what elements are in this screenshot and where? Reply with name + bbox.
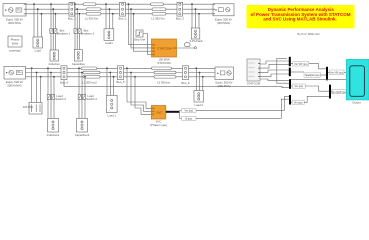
wire Vm to mux: [196, 97, 289, 111]
label Vm (pu): [182, 108, 197, 112]
line block L1 350 km: [83, 3, 101, 20]
mux bar C2: [289, 95, 291, 105]
Bus_3: [176, 2, 184, 20]
svg-text:Switch 3: Switch 3: [55, 97, 66, 101]
mux bar B: [289, 68, 291, 77]
wire B to mux: [196, 99, 289, 118]
Bus_2: [119, 2, 127, 20]
svg-text:STATCOM: STATCOM: [157, 47, 172, 51]
breaker group 2 (Bus Breakers 2): [74, 3, 95, 49]
svg-text:By Prof. MMH Asfi: By Prof. MMH Asfi: [298, 32, 320, 36]
generator source block right Equiv. 500 kV (300 MVA): [213, 4, 234, 25]
svg-text:SVC: SVC: [156, 110, 163, 114]
svg-text:Capacitive1: Capacitive1: [75, 133, 90, 137]
line block L2 350 km: [151, 3, 167, 20]
wire row1 phase C: [26, 13, 213, 15]
svg-text:Bus_3: Bus_3: [176, 16, 184, 20]
svg-text:Breakers 2: Breakers 2: [81, 32, 95, 36]
Bus_6: [182, 66, 190, 85]
STATCOM measurement wire: [177, 47, 195, 49]
wires Bus_2 to STATCOM: [128, 3, 152, 51]
svg-text:powergui: powergui: [9, 48, 21, 52]
svg-text:Bus_5: Bus_5: [117, 80, 125, 84]
svg-text:Load1: Load1: [105, 41, 113, 45]
svg-text:Inductive: Inductive: [49, 62, 61, 66]
breaker group 1 (Bus Breakers 1): [50, 3, 71, 50]
label B (pu): [182, 116, 197, 120]
measurement subsystem: [247, 59, 261, 85]
svg-text:60Hz: 60Hz: [12, 41, 19, 45]
svg-text:L3 350 km: L3 350 km: [157, 81, 171, 85]
generator source right Equiv. 500 kV (300 MVA) bottom: [215, 67, 234, 88]
line block L3 350 km: [152, 67, 177, 85]
svg-text:L1 300 km2: L1 300 km2: [82, 81, 97, 85]
svg-text:SptdQoA (pu): SptdQoA (pu): [305, 74, 320, 77]
label Qm QmP (pu): [332, 90, 347, 94]
Bus_4: [60, 66, 68, 85]
STATCOM block: [152, 39, 177, 65]
wire row2 phase A: [26, 67, 216, 69]
svg-text:Step Vref: Step Vref: [134, 38, 146, 42]
wire row2 phase C: [26, 76, 216, 78]
svg-text:Bus_2: Bus_2: [119, 16, 127, 20]
wire bar C1 to scope: [291, 79, 346, 81]
title annotation: [247, 5, 355, 28]
svg-text:Capacitive: Capacitive: [72, 62, 86, 66]
svg-text:3000 MVA2: 3000 MVA2: [7, 84, 22, 88]
svg-text:100 MW: 100 MW: [23, 105, 34, 109]
svg-text:B (pu): B (pu): [185, 117, 192, 120]
svg-text:Qm QmP (pu): Qm QmP (pu): [332, 91, 347, 94]
powergui: [8, 36, 22, 52]
label Vm (pu)2: [292, 100, 304, 104]
svg-text:and SVC Using MATLAB Simulink.: and SVC Using MATLAB Simulink.: [263, 17, 336, 22]
SVC thick measurement line: [166, 111, 180, 113]
Load Switch 4 group: [78, 67, 97, 118]
Capacitive1 load: [75, 119, 90, 137]
wire row1 phase B: [26, 8, 213, 10]
svg-text:(Phasor type): (Phasor type): [150, 123, 167, 127]
mux bar C1: [289, 79, 291, 89]
svg-text:Output: Output: [352, 100, 361, 104]
svg-text:STATCOM: STATCOM: [157, 61, 171, 65]
svg-text:Load 1: Load 1: [107, 113, 116, 117]
Bus_5: [117, 66, 125, 84]
Scope: [346, 59, 369, 104]
mux bar 2: [326, 67, 328, 81]
label Vm VPr (pu): [293, 61, 309, 66]
generator source Equiv. 500 kV 3000 MVA2: [4, 66, 26, 87]
3-phase fault group: [185, 3, 203, 46]
Load block: [33, 37, 43, 53]
label Vm (pu): [292, 84, 305, 88]
Inductive load: [49, 50, 61, 66]
svg-text:3000 MVA: 3000 MVA: [8, 21, 21, 25]
Step Vref: [134, 30, 152, 54]
svg-text:Breakers 1: Breakers 1: [57, 32, 71, 36]
Load 2 (under Bus_6 taps): [194, 67, 204, 107]
mux bar D: [329, 85, 331, 99]
mux bar A: [289, 57, 291, 67]
svg-text:L1 350 Km: L1 350 Km: [85, 16, 99, 20]
line block L2 350 km (bottom): [81, 67, 100, 85]
svg-text:Switch 4: Switch 4: [86, 97, 97, 101]
svg-text:(300 MVA): (300 MVA): [217, 21, 230, 25]
Bus_4 measurement wire to scope cluster: [64, 80, 289, 88]
svg-text:Vm (pu): Vm (pu): [294, 85, 303, 88]
Load 1 (mid): [104, 3, 114, 45]
svg-text:(300 MVA): (300 MVA): [217, 84, 230, 88]
subsystem wires to muxes: [260, 61, 289, 64]
Load Switch 3 group: [47, 67, 66, 118]
wire row2 phase B: [26, 72, 216, 74]
svg-text:Vm VPr (pu): Vm VPr (pu): [294, 63, 307, 66]
wire row1 phase A: [26, 3, 213, 5]
100 MW load group: [23, 67, 42, 114]
svg-text:STATCOM: STATCOM: [247, 81, 261, 85]
svg-text:Load 2: Load 2: [194, 103, 203, 107]
svg-text:Vm (pu): Vm (pu): [294, 101, 303, 104]
label SptdQoA (pu): [304, 73, 321, 78]
SVC block: [150, 106, 167, 127]
Capacitive load: [72, 50, 86, 66]
label Vm VPr (pu)2: [330, 70, 345, 75]
generator source block Equiv. 500 kV 3000 MVA: [3, 4, 26, 25]
wire taps to Load: [33, 3, 42, 37]
Load 1 bottom (under Bus_5): [106, 67, 117, 117]
svg-text:3-Ph Fault: 3-Ph Fault: [190, 39, 203, 43]
Bus_1: [68, 2, 76, 20]
svg-text:Vm (pu): Vm (pu): [184, 109, 193, 112]
svg-text:Inductive1: Inductive1: [47, 133, 60, 137]
svg-text:Load: Load: [35, 49, 42, 53]
svg-text:L2 350 Km: L2 350 Km: [151, 16, 165, 20]
svg-text:Vm VPr (pu): Vm VPr (pu): [330, 72, 343, 75]
svg-text:Bus_6: Bus_6: [182, 81, 190, 85]
Inductive1 load: [47, 119, 60, 137]
wires Bus_5 to SVC: [126, 67, 151, 114]
